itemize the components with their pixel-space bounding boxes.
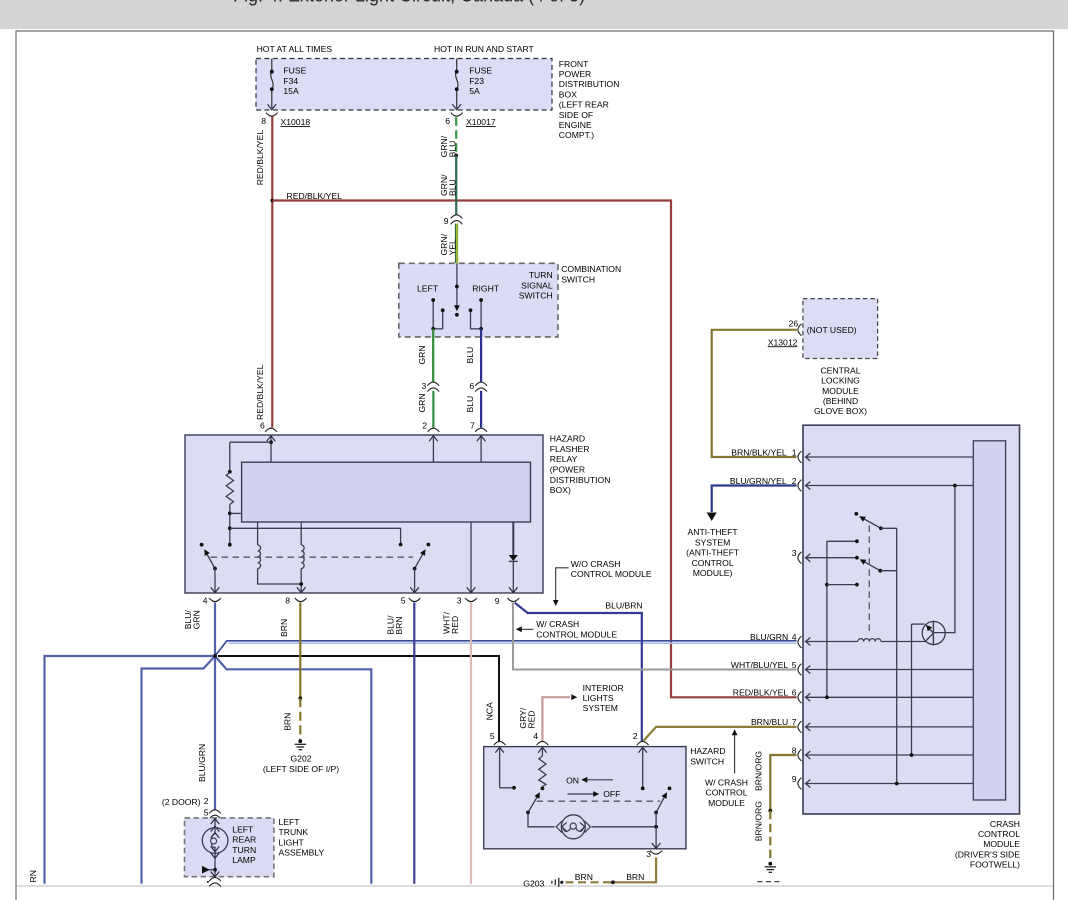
svg-text:WHT/BLU/YEL: WHT/BLU/YEL bbox=[731, 660, 789, 670]
wire BLU/GRN from relay pin 4 down to junction bbox=[214, 603, 216, 657]
canvas bottom clip line bbox=[17, 885, 1053, 887]
svg-text:2: 2 bbox=[422, 420, 427, 430]
svg-text:7: 7 bbox=[470, 420, 475, 430]
node: BRN/ORG dot bbox=[768, 809, 772, 813]
relay bottom pin 3 connector bbox=[457, 596, 477, 606]
crash module vertical to pin 8 (transistor base) bbox=[910, 624, 925, 757]
relay resistor bbox=[226, 442, 271, 546]
hazard pin 2 internal wire bbox=[638, 747, 647, 791]
svg-text:(NOT USED): (NOT USED) bbox=[807, 325, 857, 335]
central locking module box (dashed, NOT USED) bbox=[803, 299, 878, 359]
svg-text:2: 2 bbox=[792, 476, 797, 486]
svg-text:3: 3 bbox=[422, 381, 427, 391]
node A dot overlay bbox=[213, 654, 217, 658]
turn signal switch RIGHT contact bbox=[469, 298, 483, 331]
svg-text:GRN: GRN bbox=[192, 610, 202, 629]
svg-text:X13012: X13012 bbox=[768, 337, 798, 347]
svg-text:2: 2 bbox=[633, 731, 638, 741]
hazard switch top pin 2 connector bbox=[633, 731, 649, 745]
svg-text:W/ CRASHCONTROLMODULE: W/ CRASHCONTROLMODULE bbox=[705, 778, 748, 808]
svg-text:BRN: BRN bbox=[626, 872, 644, 882]
crash pin 1 bbox=[792, 447, 974, 463]
wire GRN/YEL from connector 9 to turn signal switch bbox=[455, 224, 457, 264]
relay coil 2 bbox=[297, 522, 306, 593]
svg-text:4: 4 bbox=[533, 731, 538, 741]
wire WHT/RED from relay pin 3 down bbox=[470, 603, 472, 884]
svg-text:G203: G203 bbox=[523, 879, 544, 889]
crash pin 2 bbox=[792, 476, 974, 492]
svg-text:26: 26 bbox=[789, 318, 799, 328]
header gray band bbox=[0, 0, 1068, 29]
wire blue junction lower-left branch to x=141.5 then down bbox=[142, 656, 216, 884]
relay top pin 7 connector bbox=[470, 420, 487, 432]
svg-text:YEL: YEL bbox=[448, 239, 458, 255]
wire NCA black from junction to hazard switch pin 5 bbox=[218, 656, 499, 741]
left rear turn lamp bulb bbox=[202, 828, 228, 854]
svg-text:G202: G202 bbox=[290, 753, 311, 763]
svg-text:BRN/BLU: BRN/BLU bbox=[751, 717, 788, 727]
wire BLU/BRN from relay pin 9 to hazard switch pin 2 bbox=[515, 603, 642, 741]
wire blue junction down to lamp bbox=[214, 656, 216, 810]
svg-text:2: 2 bbox=[204, 796, 209, 806]
wire BLU/GRN navy line from junction to crash module pin 4 bbox=[215, 641, 797, 656]
crash pin 5 bbox=[731, 660, 973, 676]
turn signal switch LEFT contact bbox=[431, 298, 444, 331]
wire RED/BLK/YEL vertical from X10018 to relay pin 6 bbox=[271, 116, 273, 427]
svg-text:7: 7 bbox=[792, 717, 797, 727]
svg-text:BLU/GRN: BLU/GRN bbox=[750, 632, 788, 642]
svg-text:RIGHT: RIGHT bbox=[472, 283, 499, 293]
relay bottom pin 4 connector bbox=[203, 596, 221, 606]
hazard switch top pin 5 connector bbox=[490, 731, 506, 745]
svg-text:X10018: X10018 bbox=[281, 117, 311, 127]
svg-text:NCA: NCA bbox=[484, 702, 494, 720]
relay internal pin 7 wire with up arrow bbox=[477, 435, 486, 462]
lamp lower wire with arrows and chassis tab bbox=[202, 846, 219, 877]
wire BRN/BLK/YEL from X13012 to crash module pin 1 bbox=[712, 330, 797, 457]
hazard right switch bbox=[652, 787, 672, 849]
wire BRN from relay pin 8 bbox=[299, 603, 301, 699]
ground G202 bbox=[295, 739, 306, 749]
relay bottom pin 5 connector bbox=[401, 596, 421, 606]
svg-text:GRN: GRN bbox=[417, 393, 427, 412]
svg-text:6: 6 bbox=[792, 688, 797, 698]
wire WHT/BLU/YEL gray from relay pin 9 to crash module pin 5 bbox=[513, 603, 797, 670]
svg-text:OFF: OFF bbox=[603, 789, 620, 799]
relay right switch bbox=[399, 543, 431, 593]
wire BRN/ORG dashed to ground bbox=[769, 811, 771, 862]
wire BRN dashed to G203 bbox=[563, 881, 611, 883]
svg-text:BLU: BLU bbox=[465, 347, 475, 364]
svg-text:RED: RED bbox=[450, 616, 460, 634]
wire GRN from turn switch to connector 3 bbox=[432, 329, 434, 382]
svg-text:1: 1 bbox=[792, 447, 797, 457]
svg-text:BRN: BRN bbox=[279, 619, 289, 637]
svg-text:5: 5 bbox=[401, 596, 406, 606]
wire BLU/GRN/YEL from crash module pin 2 to anti-theft system bbox=[712, 486, 797, 513]
svg-text:BLU/BRN: BLU/BRN bbox=[605, 601, 642, 611]
svg-text:4: 4 bbox=[792, 632, 797, 642]
relay diode bbox=[509, 522, 518, 593]
svg-text:BRN/BLK/YEL: BRN/BLK/YEL bbox=[731, 447, 787, 457]
crash module inner rectangle bbox=[973, 441, 1005, 800]
svg-text:ON: ON bbox=[566, 776, 579, 786]
relay top pin 6 connector bbox=[260, 420, 277, 432]
combination switch box (dashed) bbox=[399, 263, 558, 337]
svg-text:GRN: GRN bbox=[417, 345, 427, 364]
left rear turn lamp box (dashed) bbox=[185, 818, 274, 877]
label OFF with arrow bbox=[568, 789, 621, 799]
relay top pin 2 connector bbox=[422, 420, 439, 432]
svg-text:ANTI-THEFTSYSTEM(ANTI-THEFTCON: ANTI-THEFTSYSTEM(ANTI-THEFTCONTROLMODULE… bbox=[686, 527, 740, 578]
lamp wire entering with up arrow bbox=[211, 818, 220, 838]
node: BRN dot bbox=[611, 880, 615, 884]
crash pin 9 bbox=[792, 774, 974, 790]
turn signal switch common pole wire with arrow bbox=[454, 263, 460, 316]
svg-text:4: 4 bbox=[203, 596, 208, 606]
hazard mechanical linkage (dashed) bbox=[537, 800, 661, 802]
svg-text:8: 8 bbox=[261, 116, 266, 126]
svg-text:5: 5 bbox=[792, 660, 797, 670]
svg-text:6: 6 bbox=[469, 381, 474, 391]
crash module switch 1 (upper) bbox=[854, 512, 896, 530]
svg-text:3: 3 bbox=[457, 596, 462, 606]
hazard pin 4 resistor bbox=[538, 747, 547, 789]
svg-text:9: 9 bbox=[495, 596, 500, 606]
connector X13012 pin 26 bbox=[768, 318, 802, 347]
wire blue junction left branch to x=44.5 then down bbox=[45, 656, 216, 884]
node: green wire dot bbox=[454, 154, 458, 158]
svg-text:RED: RED bbox=[527, 710, 537, 728]
svg-text:LEFT: LEFT bbox=[417, 283, 439, 293]
svg-text:HAZARDSWITCH: HAZARDSWITCH bbox=[690, 746, 725, 766]
svg-text:BRN: BRN bbox=[282, 713, 292, 731]
svg-text:RN: RN bbox=[28, 870, 38, 882]
relay coil 1 bbox=[258, 522, 302, 584]
hazard flasher relay box bbox=[185, 435, 543, 593]
node: BRN dot bbox=[298, 696, 302, 700]
crash pin 4 with coil bbox=[750, 632, 925, 648]
crash module switch linkage (dashed) bbox=[868, 525, 870, 635]
front power distribution box (dashed) bbox=[256, 59, 552, 111]
crash module switch 2 (lower) bbox=[855, 539, 897, 572]
in-line connector 9 bbox=[444, 215, 463, 226]
callout W/ CRASH CONTROL MODULE (left) bbox=[516, 619, 618, 639]
fuse F23 5A bbox=[452, 59, 492, 110]
hazard left switch bbox=[526, 787, 555, 827]
relay bottom pin 8 connector bbox=[285, 596, 306, 606]
wire GRN/BLU solid segment bbox=[455, 156, 457, 215]
svg-text:BRN/ORG: BRN/ORG bbox=[754, 801, 764, 841]
svg-text:BRN: BRN bbox=[575, 872, 593, 882]
svg-text:3: 3 bbox=[792, 548, 797, 558]
svg-text:RED/BLK/YEL: RED/BLK/YEL bbox=[733, 688, 789, 698]
relay pin 3 internal wire bbox=[467, 522, 476, 593]
svg-text:5: 5 bbox=[490, 731, 495, 741]
fuse F34 15A bbox=[268, 59, 307, 110]
svg-text:(2 DOOR): (2 DOOR) bbox=[162, 797, 201, 807]
callout W/O CRASH CONTROL MODULE bbox=[553, 559, 652, 606]
svg-text:RED/BLK/YEL: RED/BLK/YEL bbox=[255, 130, 265, 186]
crash control module box bbox=[803, 425, 1020, 814]
svg-text:6: 6 bbox=[260, 420, 265, 430]
svg-text:8: 8 bbox=[285, 596, 290, 606]
wire BRN dashed to ground bbox=[299, 698, 301, 739]
relay mechanical linkage (dashed) bbox=[211, 556, 414, 558]
svg-text:BRN: BRN bbox=[394, 616, 404, 634]
connector X10017 pin 6 bbox=[445, 113, 496, 128]
svg-text:9: 9 bbox=[444, 216, 449, 226]
svg-text:8: 8 bbox=[792, 745, 797, 755]
crash module internal vertical from pin 6 bbox=[825, 541, 859, 699]
svg-text:5: 5 bbox=[204, 808, 209, 818]
svg-text:HOT AT ALL TIMES: HOT AT ALL TIMES bbox=[257, 44, 333, 54]
crash module vertical to pin 9 bbox=[895, 528, 899, 785]
crash pin 6 bbox=[733, 688, 974, 704]
wire BLU from turn switch to connector 6 bbox=[480, 329, 482, 382]
hazard switch box bbox=[484, 747, 686, 849]
wire BRN/ORG from crash pin 8 bbox=[770, 755, 796, 811]
wire from transistor collector to pin 2 line bbox=[933, 484, 956, 633]
svg-text:BRN/ORG: BRN/ORG bbox=[754, 751, 764, 791]
hazard pin 5 internal wire bbox=[495, 747, 516, 790]
callout W/ CRASH CONTROL MODULE (right) bbox=[705, 729, 748, 808]
svg-text:LEFTREARTURNLAMP: LEFTREARTURNLAMP bbox=[232, 824, 256, 865]
in-line connector below lamp box bbox=[207, 878, 221, 887]
relay bottom pin 9 connector bbox=[495, 596, 519, 606]
svg-text:RED/BLK/YEL: RED/BLK/YEL bbox=[255, 364, 265, 420]
svg-text:Fig. 4: Exterior Light Circuit: Fig. 4: Exterior Light Circuit, Canada (… bbox=[233, 0, 585, 6]
hazard bottom pin 3 connector bbox=[646, 849, 662, 859]
wire BLU from connector 6 to relay pin 7 bbox=[480, 391, 482, 428]
node A: main blue junction bbox=[213, 654, 217, 658]
in-line connector 2/5 above lamp bbox=[204, 796, 221, 819]
svg-text:3: 3 bbox=[646, 849, 651, 859]
svg-text:9: 9 bbox=[792, 774, 797, 784]
wire GRY/RED from hazard pin 4 up with arrow to interior lights system bbox=[542, 694, 577, 741]
wire BLU/BRN from relay pin 5 down bbox=[413, 603, 415, 884]
in-line connector 3 bbox=[422, 381, 439, 392]
hazard indicator lamp bbox=[556, 815, 656, 839]
svg-text:BLU/GRN/YEL: BLU/GRN/YEL bbox=[730, 476, 787, 486]
node: red wire junction bbox=[270, 199, 274, 203]
relay inner module rectangle bbox=[242, 462, 531, 522]
label ON with arrow bbox=[566, 776, 613, 786]
transistor Q1 bbox=[922, 621, 945, 646]
crash pin 8 bbox=[792, 745, 974, 761]
wire RED/BLK/YEL horizontal to right then down to crash module pin 6 bbox=[272, 201, 796, 698]
svg-text:(LEFT SIDE OF I/P): (LEFT SIDE OF I/P) bbox=[263, 764, 339, 774]
wire blue junction lower-right branch to x=371.3 then down bbox=[215, 656, 371, 884]
relay internal pin 6 wire with up arrow bbox=[267, 435, 276, 462]
svg-text:X10017: X10017 bbox=[466, 117, 496, 127]
relay internal pin 2 wire with up arrow bbox=[429, 435, 438, 462]
ground G203 (sideways) bbox=[552, 878, 564, 887]
svg-text:BLU: BLU bbox=[465, 396, 475, 413]
wire BLU/GRN light blue companion line bbox=[229, 642, 797, 644]
svg-text:BLU/GRN: BLU/GRN bbox=[197, 744, 207, 782]
relay wire to right contact bbox=[230, 528, 401, 544]
in-line connector 6 bbox=[469, 381, 487, 392]
wire GRN/BLU dashed segment below X10017 bbox=[455, 117, 457, 155]
crash pin 7 bbox=[751, 717, 973, 733]
wire BRN from hazard pin 3 bbox=[613, 858, 656, 883]
hazard switch top pin 4 connector bbox=[533, 731, 548, 745]
ground below crash module bbox=[758, 862, 784, 882]
svg-text:6: 6 bbox=[445, 116, 450, 126]
wire GRN from connector 3 to relay pin 2 bbox=[432, 391, 434, 428]
connector X10018 pin 8 bbox=[261, 113, 310, 128]
svg-text:HOT IN RUN AND START: HOT IN RUN AND START bbox=[434, 44, 535, 54]
svg-text:BLU: BLU bbox=[448, 179, 458, 196]
crash pin 3 bbox=[792, 548, 857, 564]
relay left switch bbox=[200, 543, 220, 593]
wire BRN/BLU from hazard pin 2 to crash module pin 7 bbox=[644, 727, 797, 741]
